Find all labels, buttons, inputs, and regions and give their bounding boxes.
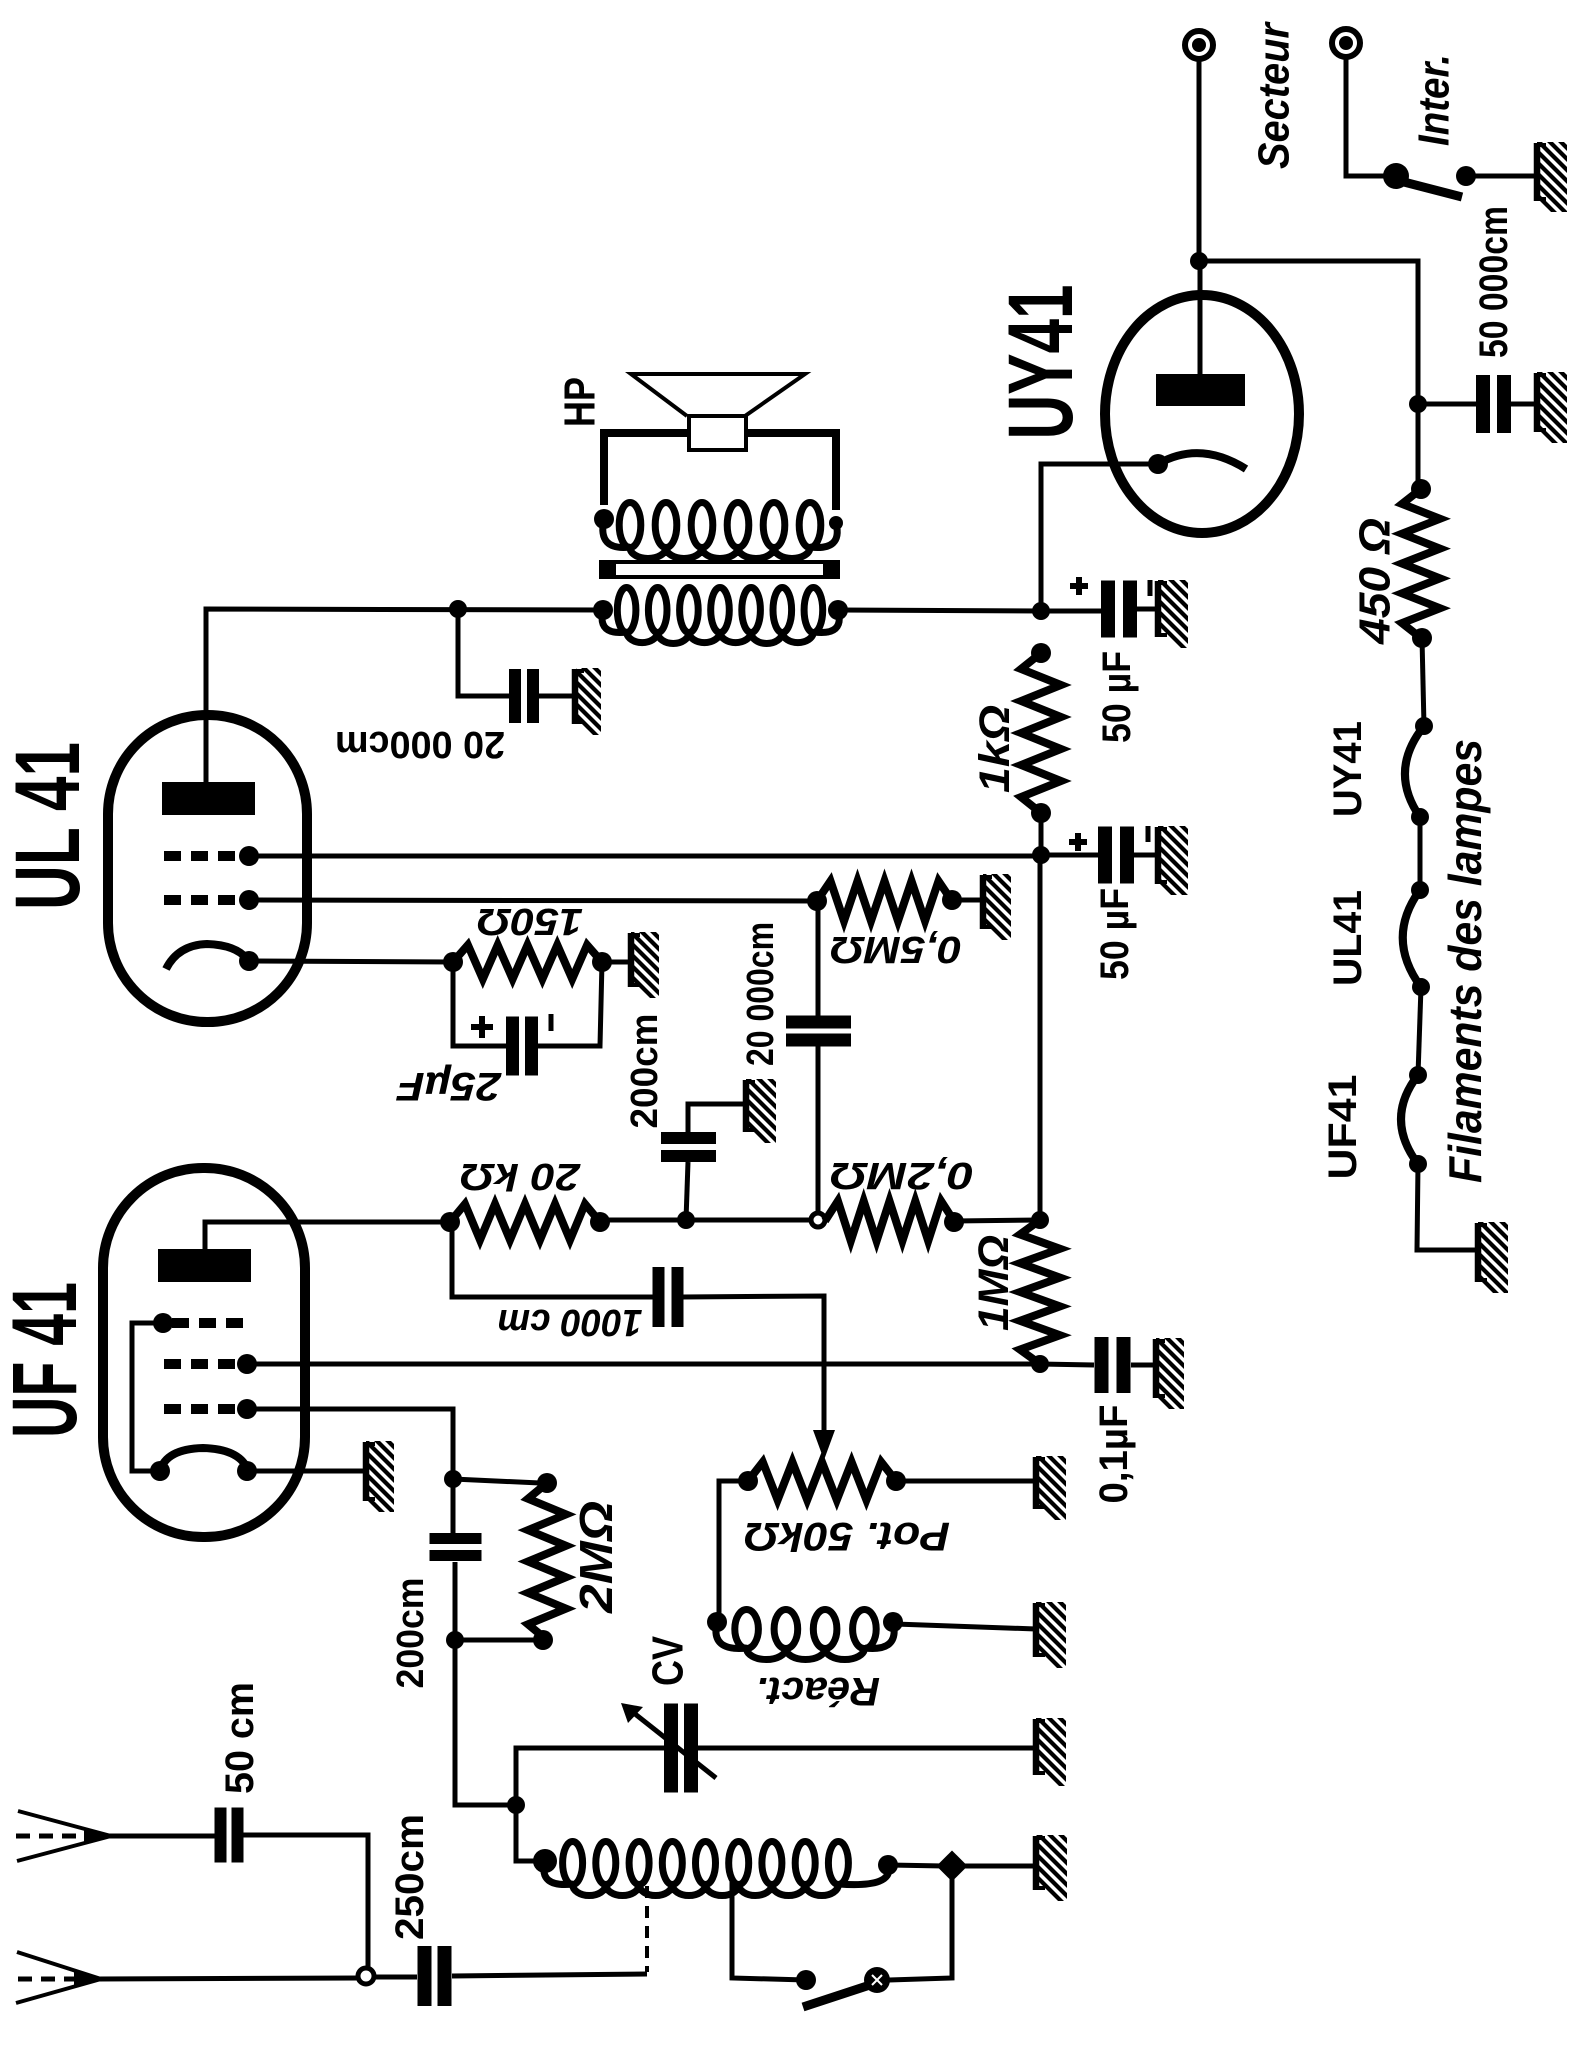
wire anode UY41 <box>1198 261 1203 380</box>
wire <box>746 433 836 510</box>
wire <box>816 1046 821 1214</box>
coil tuning <box>533 1849 557 1873</box>
wire <box>1039 813 1044 855</box>
capacitor 20000cm grid <box>786 1016 851 1029</box>
wire <box>538 694 575 699</box>
node tuning junction <box>507 1796 525 1814</box>
wire cathode UF41 <box>247 1469 366 1474</box>
svg-text:1kΩ: 1kΩ <box>971 705 1019 793</box>
resistor 150 <box>443 952 463 972</box>
wire <box>108 1834 216 1839</box>
grid UL41 control <box>164 895 238 905</box>
svg-text:150Ω: 150Ω <box>477 900 583 942</box>
cathode UY41 <box>1148 454 1168 474</box>
wire <box>600 1218 812 1223</box>
wire screen UL41 <box>249 854 1041 859</box>
capacitor 50uF lower <box>1098 827 1112 884</box>
svg-text:HP: HP <box>556 377 605 427</box>
wire <box>732 1882 806 1980</box>
svg-text:Réact.: Réact. <box>756 1669 880 1713</box>
grid UF41 g2 <box>164 1359 238 1369</box>
wire <box>453 1479 540 1483</box>
svg-text:UL 41: UL 41 <box>0 742 99 910</box>
wire <box>888 1865 944 1866</box>
wire HT down <box>1038 855 1043 1220</box>
node anode UY41 junction <box>1190 252 1208 270</box>
wire <box>538 962 602 1046</box>
node antenna junction <box>358 1968 374 1984</box>
grid UF41 g3 <box>153 1313 173 1333</box>
resistor 1k <box>1031 643 1051 663</box>
transformer core <box>601 562 838 577</box>
wire <box>455 1640 516 1805</box>
wire <box>698 1746 1036 1751</box>
tube UF41 envelope <box>103 1168 305 1537</box>
wire <box>1131 1363 1156 1368</box>
svg-text:200cm: 200cm <box>624 1014 666 1129</box>
wire <box>1040 1364 1094 1365</box>
switch Inter <box>1383 163 1409 189</box>
wire <box>516 1748 664 1805</box>
filament UY41 <box>1415 717 1433 735</box>
wire <box>1137 607 1158 612</box>
resistor 0.5M <box>807 891 827 911</box>
wire <box>1418 402 1476 407</box>
switch band <box>864 1967 890 1993</box>
wire plate UL41 run <box>206 609 603 782</box>
capacitor 50000cm <box>1476 375 1490 433</box>
svg-text:200cm: 200cm <box>390 1578 432 1689</box>
wire <box>602 960 631 965</box>
wire dashed coil tap <box>645 1886 649 1972</box>
capacitor CV <box>664 1704 678 1793</box>
resistor 2M <box>537 1473 557 1493</box>
node B+ junction <box>1032 602 1050 620</box>
wire <box>1422 638 1424 726</box>
wire <box>952 898 983 903</box>
arrow CV <box>630 1710 716 1778</box>
resistor 450 ohm <box>1411 479 1431 499</box>
wire <box>1041 853 1098 858</box>
wire g1 UF41 bias <box>247 1409 453 1479</box>
svg-text:50 cm: 50 cm <box>218 1682 262 1794</box>
minus sign <box>1148 580 1153 596</box>
wire <box>816 901 821 1016</box>
wire anode UF41 <box>205 1222 450 1249</box>
wire <box>458 609 510 696</box>
terminal Secteur (mains input A) <box>1185 31 1213 59</box>
svg-text:UF41: UF41 <box>1321 1075 1365 1180</box>
svg-text:UL41: UL41 <box>1326 890 1370 986</box>
svg-text:UY41: UY41 <box>1326 721 1370 817</box>
wire <box>242 1835 368 1968</box>
minus sign <box>1146 826 1151 842</box>
wire <box>516 1805 540 1861</box>
minus sign <box>549 1014 554 1031</box>
anode UL41 <box>162 782 255 815</box>
capacitor 1000cm <box>653 1267 665 1327</box>
plus sign <box>471 1024 493 1030</box>
svg-text:0,1µF: 0,1µF <box>1092 1405 1136 1504</box>
transformer secondary <box>594 509 614 529</box>
wire <box>452 1974 647 1976</box>
resistor 20k <box>440 1212 460 1232</box>
filament UL41 <box>1411 881 1429 899</box>
wire <box>372 1975 417 1980</box>
wire <box>688 1104 746 1141</box>
arrow to potentiometer <box>813 1430 835 1460</box>
cathode UF41 <box>150 1461 170 1481</box>
svg-text:50 µF: 50 µF <box>1093 888 1137 980</box>
svg-text:20 000cm: 20 000cm <box>335 723 505 765</box>
plus sign <box>1070 583 1088 589</box>
node coil-ground junction <box>936 1850 967 1881</box>
wire <box>961 1864 1036 1869</box>
capacitor 20000cm anode <box>509 669 521 723</box>
wire <box>895 1624 1036 1629</box>
anode UF41 <box>158 1249 251 1282</box>
wire <box>1346 57 1391 176</box>
svg-text:Secteur: Secteur <box>1250 20 1299 169</box>
anode UY41 <box>1156 374 1245 406</box>
svg-text:250cm: 250cm <box>388 1814 432 1940</box>
capacitor 200cm AVC <box>430 1533 482 1544</box>
node 50000cm junction <box>1409 395 1427 413</box>
svg-text:UY41: UY41 <box>990 285 1092 440</box>
svg-text:20 kΩ: 20 kΩ <box>460 1155 581 1197</box>
transformer primary <box>593 600 613 620</box>
svg-text:UF 41: UF 41 <box>0 1282 96 1438</box>
wire g3-cathode internal <box>132 1323 163 1471</box>
node 200cm junction <box>677 1211 695 1229</box>
wire <box>452 1222 654 1297</box>
wire <box>1511 402 1537 407</box>
svg-text:2MΩ: 2MΩ <box>570 1501 622 1614</box>
capacitor 250cm <box>418 1946 432 2006</box>
capacitor 200cm middle <box>661 1132 716 1144</box>
wire <box>1417 1164 1478 1250</box>
tube UY41 envelope <box>1105 295 1299 533</box>
wire <box>1197 59 1202 261</box>
wire cathode UL41 <box>249 961 453 962</box>
cathode UL41 <box>166 944 247 969</box>
svg-text:20 000cm: 20 000cm <box>740 922 782 1066</box>
capacitor 0.1uF <box>1095 1337 1109 1393</box>
svg-text:CV: CV <box>644 1635 693 1686</box>
svg-text:Filaments des lampes: Filaments des lampes <box>1439 739 1491 1183</box>
resistor 0.2M <box>825 1201 954 1241</box>
wire <box>453 962 507 1046</box>
antenna 2 <box>17 1952 101 1979</box>
wire <box>838 610 1041 611</box>
wire <box>896 1479 1036 1484</box>
svg-text:Inter.: Inter. <box>1410 54 1459 146</box>
svg-text:Pot. 50kΩ: Pot. 50kΩ <box>744 1514 950 1558</box>
node anode bypass junction <box>449 600 467 618</box>
svg-text:450 Ω: 450 Ω <box>1351 518 1400 645</box>
capacitor 25uF <box>506 1017 519 1076</box>
wire <box>455 1638 543 1643</box>
node 0.2M left <box>811 1213 825 1227</box>
wire cathode UY41 <box>1041 464 1158 611</box>
svg-text:1MΩ: 1MΩ <box>970 1235 1018 1331</box>
wire <box>682 1296 824 1432</box>
wire <box>604 433 689 505</box>
wire <box>98 1978 360 1979</box>
svg-text:0,2MΩ: 0,2MΩ <box>830 1154 974 1196</box>
wire <box>1041 609 1101 614</box>
wire <box>1418 987 1421 1075</box>
terminal Inter (mains input B) <box>1332 29 1360 57</box>
wire grid UF41 <box>247 1362 1040 1367</box>
plus sign <box>1069 839 1087 845</box>
capacitor 50uF upper <box>1101 581 1115 638</box>
node AVC junction <box>446 1631 464 1649</box>
tube UL41 envelope <box>108 715 307 1022</box>
filament UF41 <box>1409 1066 1427 1084</box>
svg-text:50 µF: 50 µF <box>1095 651 1139 743</box>
grid UL41 screen <box>164 851 238 861</box>
svg-text:50 000cm: 50 000cm <box>1472 206 1516 358</box>
potentiometer 50k <box>738 1471 758 1491</box>
wire <box>1466 174 1537 179</box>
wire <box>453 1562 458 1640</box>
capacitor 50cm <box>215 1808 227 1863</box>
wire <box>719 1481 748 1614</box>
node screen junction <box>1032 846 1050 864</box>
wire <box>1418 817 1423 890</box>
wire <box>686 1162 688 1220</box>
node bias junction <box>444 1470 462 1488</box>
wire <box>888 1866 952 1980</box>
svg-text:1000 cm: 1000 cm <box>498 1301 643 1343</box>
coil React <box>707 1612 727 1632</box>
wire g1 UL41 <box>249 900 817 901</box>
wire <box>954 1220 1040 1221</box>
antenna 1 <box>18 1811 111 1836</box>
wire <box>1199 261 1418 489</box>
wire <box>451 1479 456 1533</box>
svg-text:0,5MΩ: 0,5MΩ <box>830 928 962 970</box>
grid UF41 g1 <box>164 1404 238 1414</box>
speaker HP <box>631 374 805 416</box>
resistor 1M <box>1031 1211 1049 1229</box>
wire <box>1134 853 1158 858</box>
svg-text:25µF: 25µF <box>395 1064 502 1108</box>
